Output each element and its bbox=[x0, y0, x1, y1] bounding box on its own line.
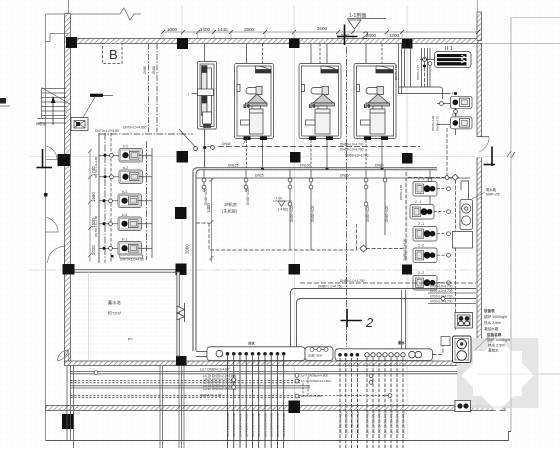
watermark leader diagonal bbox=[475, 337, 489, 351]
dimension ticks top bbox=[161, 30, 480, 34]
svg-text:0700×L0+4.700: 0700×L0+4.700 bbox=[430, 284, 453, 288]
pump P3 suction valve bbox=[99, 200, 118, 202]
valve drops from main bbox=[204, 170, 430, 250]
pump P3 bbox=[118, 194, 142, 208]
svg-text:b-1: b-1 bbox=[122, 238, 127, 242]
boiler feed pump row 4 bbox=[413, 248, 437, 263]
burner cylinder bbox=[366, 88, 379, 95]
dashed header to pumps right (y=177.5) bbox=[408, 177, 452, 179]
pump P5 bbox=[118, 242, 142, 256]
svg-text:约72m³: 约72m³ bbox=[108, 310, 122, 316]
svg-text:Ld-10 DN5d0.6+4.800: Ld-10 DN5d0.6+4.800 bbox=[301, 379, 331, 383]
svg-text:DN125: DN125 bbox=[228, 164, 239, 168]
condensate leader labels right mid bbox=[123, 125, 369, 157]
column R2C4 bbox=[402, 153, 413, 164]
pump P2 suction valve bbox=[99, 176, 119, 178]
door arc in bundle bbox=[58, 350, 69, 361]
valve on pipe A at x=443 bbox=[441, 297, 445, 301]
section marker 2 top bbox=[337, 25, 358, 46]
manifold2 tap circles bbox=[338, 353, 359, 357]
left wall band (x 64.5-70.5) bbox=[65, 14, 71, 364]
svg-text:DN70×1.0+4.80: DN70×1.0+4.80 bbox=[94, 156, 98, 178]
svg-text:2000: 2000 bbox=[185, 244, 190, 254]
column R4C3 bbox=[289, 264, 301, 275]
small dark unit bottom right bbox=[455, 401, 471, 412]
grid axis vertical C (x=294.5) bbox=[294, 34, 296, 440]
manifold right link to box bbox=[433, 341, 444, 355]
svg-text:Ld-7 DN5kpd+4.800: Ld-7 DN5kpd+4.800 bbox=[301, 374, 328, 378]
svg-text:热水 2.5t/h: 热水 2.5t/h bbox=[484, 320, 501, 325]
bottom-left solid pair 2 bbox=[71, 385, 311, 387]
svg-text:DN65×L0+4.700: DN65×L0+4.700 bbox=[345, 153, 369, 157]
staircase bbox=[37, 88, 70, 124]
grid axis horizontal row4 (y=270) bbox=[30, 269, 478, 271]
column R2C3 bbox=[290, 152, 301, 163]
right wall door swing arc bbox=[480, 137, 490, 152]
discharge riser (x=152) bbox=[151, 148, 153, 258]
boiler unit 1 bbox=[235, 64, 274, 141]
svg-text:DN50+4.00: DN50+4.00 bbox=[366, 206, 370, 222]
burner cylinder bbox=[311, 88, 324, 95]
svg-text:OB5-A Fb-4.80°: OB5-A Fb-4.80° bbox=[200, 393, 223, 397]
svg-text:LG-2 DN70×A+800: LG-2 DN70×A+800 bbox=[270, 413, 274, 437]
vertical dashed x=455.5 bbox=[455, 180, 457, 330]
svg-text:LG-2 DN70×A+800: LG-2 DN70×A+800 bbox=[396, 410, 400, 434]
level mark bbox=[273, 201, 292, 207]
grid axis horizontal row2 (y=156.5) bbox=[30, 156, 507, 158]
svg-text:DN25: DN25 bbox=[340, 174, 349, 178]
softener unit box1 bbox=[192, 62, 217, 130]
manifold tap dots bbox=[226, 352, 286, 356]
column R6C1 bbox=[62, 414, 74, 429]
bottom wall band 1 (y 361-365.5) bbox=[65, 361, 479, 366]
water tank twin circle unit bbox=[460, 200, 473, 230]
column R2C1 bbox=[58, 154, 71, 166]
svg-text:DN40+4.00: DN40+4.00 bbox=[385, 206, 389, 222]
svg-text:剩水箱: 剩水箱 bbox=[486, 187, 497, 192]
svg-text:锅炉 1000kg/h: 锅炉 1000kg/h bbox=[484, 314, 507, 319]
label rows bottom-left bbox=[200, 367, 237, 397]
boiler B2 top feed stubs bbox=[310, 44, 312, 64]
svg-text:DN80×1.0+4.750: DN80×1.0+4.750 bbox=[318, 284, 343, 288]
pump P1 bbox=[119, 149, 143, 163]
svg-text:L 3: L 3 bbox=[364, 104, 371, 109]
svg-text:Ld-8 DN70×A+800: Ld-8 DN70×A+800 bbox=[339, 411, 343, 435]
main pipe pair corner bbox=[193, 168, 437, 351]
small box above right of manifold bbox=[441, 337, 450, 346]
svg-text:2 -2: 2 -2 bbox=[418, 271, 424, 275]
grid ext line top right (y=17.5) bbox=[511, 17, 560, 19]
right wall band lower bbox=[477, 44, 482, 406]
bottom boundary line (y=440.5) bbox=[46, 432, 512, 441]
svg-text:Ld-6 DN70×A+800: Ld-6 DN70×A+800 bbox=[356, 411, 360, 435]
riser pair up from manifold bbox=[290, 338, 292, 347]
door arc bottom-left bbox=[58, 349, 69, 361]
svg-text:集水: 集水 bbox=[397, 340, 405, 345]
svg-text:DN80: DN80 bbox=[143, 66, 147, 74]
left pump vertical pipe a (x=99) bbox=[98, 133, 100, 263]
column R4C2 bbox=[176, 264, 187, 276]
svg-text:h-6: h-6 bbox=[452, 92, 457, 96]
dimension line top (y=32) bbox=[162, 31, 478, 33]
svg-text:DN80+4.80: DN80+4.80 bbox=[399, 184, 403, 200]
second cluster leader circles bbox=[295, 374, 299, 378]
svg-text:2 -1: 2 -1 bbox=[418, 222, 424, 226]
water tank room top wall bbox=[75, 270, 176, 273]
small unit below bbox=[455, 313, 473, 329]
faint room inner line bbox=[88, 272, 90, 361]
right wall door leaf bbox=[477, 136, 489, 138]
svg-text:LG-4 DN70×A+800: LG-4 DN70×A+800 bbox=[245, 413, 249, 437]
wall drop pipes to box1 (x=148.6,157) bbox=[148, 44, 150, 133]
outer boundary top-left (y=14) with break bbox=[46, 8, 142, 20]
vessel cone and body bbox=[313, 94, 334, 103]
stub from junction to main bbox=[204, 149, 206, 168]
bottom-left dashed pair bbox=[71, 380, 301, 382]
mid vertical pipes below band1 bbox=[160, 366, 184, 449]
gas dashed line (y=146.5) bbox=[218, 146, 420, 148]
svg-text:DfN4.6m+4.800: DfN4.6m+4.800 bbox=[301, 394, 322, 398]
manifold taps solid group bbox=[228, 356, 284, 448]
dark text block over watermark bbox=[487, 332, 510, 353]
leader circles bottom-left bbox=[369, 374, 373, 378]
tank top piping bbox=[461, 181, 469, 200]
svg-text:锅炉 1000kg/h: 锅炉 1000kg/h bbox=[487, 337, 510, 342]
right wall band upper (x 477-481.5) bbox=[477, 12, 482, 41]
svg-text:LG-3 DN70×A+800: LG-3 DN70×A+800 bbox=[257, 413, 261, 437]
equipment text block bbox=[484, 308, 507, 331]
column R1C2 bbox=[177, 38, 188, 49]
svg-text:2: 2 bbox=[365, 315, 374, 330]
section marker 2 bottom bbox=[341, 309, 363, 327]
boiler feed pump row 5 bbox=[413, 276, 437, 291]
svg-text:(-4.80): (-4.80) bbox=[278, 208, 288, 212]
junction trio below box1 bbox=[203, 146, 206, 149]
svg-text:水测7.5kW: 水测7.5kW bbox=[308, 353, 323, 358]
svg-text:2 -1: 2 -1 bbox=[415, 200, 421, 204]
dim chain left (x=90) bbox=[88, 149, 92, 262]
svg-text:2: 2 bbox=[361, 30, 368, 42]
condensate pump unit redrawn over watermark bbox=[453, 336, 472, 363]
dashed return (y=283) bbox=[300, 282, 476, 284]
svg-text:设备表: 设备表 bbox=[484, 308, 495, 313]
condensate pump unit bbox=[453, 336, 472, 363]
bottom-left pipe bundle solid pair 1 bbox=[71, 371, 477, 373]
dash-dot vertical x=346.5 lower bbox=[346, 47, 348, 347]
junction dot on left boundary bbox=[44, 193, 48, 197]
long pipe A (y=288.5) bbox=[291, 289, 477, 348]
svg-text:1400: 1400 bbox=[200, 27, 211, 32]
riser pair up from manifold2 bbox=[401, 290, 403, 349]
watermark inner faint line across bbox=[477, 373, 560, 375]
boiler feed pump row 2 bbox=[410, 205, 434, 220]
boiler feed pump row 1 bbox=[413, 182, 437, 197]
svg-text:2800: 2800 bbox=[244, 27, 255, 32]
HX valve 1 bbox=[423, 58, 427, 62]
svg-text:DN65+4.70: DN65+4.70 bbox=[436, 115, 440, 131]
svg-text:L 3: L 3 bbox=[309, 104, 316, 109]
plain box right bbox=[453, 232, 473, 249]
svg-text:DN70×1.0+4.80: DN70×1.0+4.80 bbox=[94, 215, 98, 237]
svg-text:Ld-10 DN70×2.0+4.800: Ld-10 DN70×2.0+4.800 bbox=[203, 387, 237, 391]
svg-text:DN65+4.00: DN65+4.00 bbox=[431, 115, 435, 131]
left pump vertical pipe c (x=111) dashed bbox=[110, 133, 112, 263]
pump P5 suction valve bbox=[99, 247, 118, 249]
svg-text:2600: 2600 bbox=[317, 26, 328, 31]
small dark mark above room bbox=[111, 255, 114, 258]
vertical line top right corner bbox=[477, 0, 479, 12]
mini valve chain right of manifold1 bbox=[310, 348, 328, 352]
svg-text:Ld-7 DN80×Cd-4.80°: Ld-7 DN80×Cd-4.80° bbox=[200, 367, 231, 371]
second leader label cluster bbox=[301, 374, 331, 399]
watermark gray square bbox=[457, 338, 539, 408]
louvre triangles on room right wall bbox=[177, 306, 185, 313]
svg-text:b-3: b-3 bbox=[122, 213, 127, 217]
svg-text:2 -2: 2 -2 bbox=[418, 244, 424, 248]
svg-text:b-2: b-2 bbox=[123, 145, 128, 149]
svg-text:LG-5 DN70×A+800: LG-5 DN70×A+800 bbox=[226, 413, 230, 437]
svg-text:DN70×L0+4.800: DN70×L0+4.800 bbox=[123, 125, 147, 129]
svg-text:0700×L0+4.700: 0700×L0+4.700 bbox=[430, 289, 453, 293]
watermark faint band2 line bbox=[457, 406, 511, 408]
svg-text:DN80×1.0+4.80: DN80×1.0+4.80 bbox=[403, 238, 407, 261]
door arc left wall mid bbox=[46, 218, 59, 233]
stem valves at label rows bbox=[232, 378, 236, 382]
box1 feed pipe bbox=[204, 44, 206, 62]
valves row B bbox=[202, 178, 206, 182]
column R5C3 bbox=[289, 401, 301, 414]
svg-text:凝结水箱: 凝结水箱 bbox=[484, 326, 499, 331]
pump P4 suction valve bbox=[99, 223, 118, 225]
dimension extension stubs top bbox=[163, 32, 402, 40]
svg-text:-7.00: -7.00 bbox=[274, 197, 282, 201]
svg-text:L 3: L 3 bbox=[244, 104, 251, 109]
top-left niche in wall bbox=[46, 34, 69, 42]
svg-text:LG-2 DN70×A+800: LG-2 DN70×A+800 bbox=[390, 410, 394, 434]
svg-text:II 1: II 1 bbox=[445, 46, 453, 52]
room interior hatch lines bbox=[72, 280, 176, 352]
manifold2 taps dashed group bbox=[340, 358, 403, 448]
grid axis vertical B (x=182) bbox=[181, 6, 183, 440]
top wall band (y 38.5-43.5) bbox=[65, 39, 479, 44]
svg-text:LG-5 DN70×A+800: LG-5 DN70×A+800 bbox=[372, 410, 376, 434]
boiler feed pump row 3 bbox=[413, 227, 437, 242]
boiler unit 2 bbox=[299, 64, 341, 141]
feed pipes into manifold left bbox=[196, 351, 207, 353]
svg-text:设备名称: 设备名称 bbox=[487, 332, 502, 337]
heat exchanger drop pipes bbox=[424, 62, 426, 88]
HX valve 2 bbox=[428, 62, 432, 66]
svg-text:P≈: P≈ bbox=[128, 337, 134, 342]
svg-text:LG-1 DN70×A+800: LG-1 DN70×A+800 bbox=[402, 410, 406, 434]
boiler B1 burner diagonal bbox=[243, 137, 249, 144]
svg-text:1#配电: 1#配电 bbox=[36, 121, 47, 126]
svg-text:热水 2.5t/h: 热水 2.5t/h bbox=[488, 343, 505, 348]
column R3C2 bbox=[175, 207, 187, 219]
margin legend mark bbox=[0, 98, 6, 104]
svg-text:2020: 2020 bbox=[91, 245, 96, 255]
burner cylinder bbox=[246, 88, 258, 95]
boiler B2 feet pipes bbox=[310, 140, 312, 168]
boiler B3 feet pipes bbox=[365, 140, 367, 168]
svg-text:LG-4 DN70×A+800: LG-4 DN70×A+800 bbox=[239, 413, 243, 437]
svg-text:凝结水: 凝结水 bbox=[488, 348, 499, 353]
rotated micro labels under taps group1 bbox=[226, 413, 286, 437]
leader from electric box bbox=[83, 97, 95, 118]
HW pump A bbox=[451, 96, 473, 108]
svg-text:1680: 1680 bbox=[91, 192, 96, 202]
section flag 1-1 top bbox=[347, 12, 386, 29]
pump P4 bbox=[118, 217, 142, 231]
door arc left wall upper bbox=[46, 146, 58, 160]
diagonal branch right bbox=[205, 146, 212, 148]
grid ext line right of top wall (y=43.5) bbox=[481, 43, 560, 45]
vessel cone and body bbox=[248, 94, 267, 103]
manifold header bbox=[207, 347, 433, 361]
left pump vertical pipe b (x=105) dash-dot bbox=[104, 133, 106, 263]
small dark unit bottom right redrawn bbox=[455, 401, 471, 412]
right boundary (x=511) bbox=[510, 18, 512, 432]
svg-text:DN65+4.50: DN65+4.50 bbox=[394, 64, 398, 80]
svg-text:DN80: DN80 bbox=[375, 164, 384, 168]
outer boundary left (x=45.5) bbox=[45, 14, 47, 441]
column R5C2 bbox=[176, 356, 187, 366]
column R4C4 bbox=[402, 265, 412, 275]
valves row C bbox=[288, 202, 292, 206]
left pump header (x=146.5) bbox=[146, 141, 148, 260]
svg-text:1440: 1440 bbox=[217, 27, 228, 32]
vessel cone and body bbox=[368, 94, 389, 103]
right top feed lines bbox=[399, 87, 456, 135]
pipe C right (y=293) bbox=[428, 292, 476, 294]
bottom wall band 2 (y 405-410.5) bbox=[46, 406, 506, 411]
bottom-left dashed pair 2 bbox=[71, 395, 391, 397]
vertical line above top wall x=294 bbox=[293, 6, 295, 38]
section marker 1 left bbox=[37, 149, 53, 168]
svg-text:Ld-8 DN70×A+800: Ld-8 DN70×A+800 bbox=[344, 411, 348, 435]
column R2C2 bbox=[177, 151, 189, 163]
right wall door opening white gap bbox=[476, 137, 483, 157]
svg-text:LG-2 DN70×A+800: LG-2 DN70×A+800 bbox=[264, 413, 268, 437]
secondary line (y=178) with valves bbox=[196, 177, 470, 179]
pipe D right (y=303.5) bbox=[428, 303, 476, 305]
svg-text:LG-3 DN70×A+800: LG-3 DN70×A+800 bbox=[251, 413, 255, 437]
svg-text:1200: 1200 bbox=[389, 33, 400, 38]
svg-text:2 -1: 2 -1 bbox=[418, 177, 424, 181]
boiler unit 3 bbox=[354, 64, 396, 141]
dash riser to HW circle bbox=[446, 128, 448, 176]
heat exchanger II1 bbox=[435, 46, 472, 68]
svg-text:DN50: DN50 bbox=[152, 66, 156, 74]
svg-text:LG-1 DN70×A+800: LG-1 DN70×A+800 bbox=[282, 413, 286, 437]
boiler B1 feet pipes bbox=[246, 140, 248, 168]
suction header horizontal (y=134) bbox=[99, 133, 193, 135]
diagonal branch left bbox=[179, 129, 195, 147]
svg-text:DN65×L0+4.700: DN65×L0+4.700 bbox=[340, 147, 364, 151]
svg-text:I: I bbox=[188, 92, 189, 97]
water tank room right wall bbox=[177, 272, 180, 356]
HX junction dot bbox=[423, 65, 426, 68]
svg-text:DN25: DN25 bbox=[255, 174, 264, 178]
right boundary through watermark bbox=[510, 330, 512, 431]
loop diamond bbox=[360, 245, 367, 252]
leader dash drops bbox=[302, 383, 304, 397]
HW pump B bbox=[451, 117, 473, 129]
svg-text:DN50+4.00: DN50+4.00 bbox=[311, 206, 315, 222]
svg-text:(主机房): (主机房) bbox=[222, 208, 238, 215]
svg-text:DN50+4.00: DN50+4.00 bbox=[204, 189, 208, 205]
pump P1 suction valve bbox=[99, 154, 119, 156]
svg-text:DN50+4.70: DN50+4.70 bbox=[416, 64, 420, 80]
svg-text:Ld-6 DN70×A+800: Ld-6 DN70×A+800 bbox=[350, 411, 354, 435]
riser bundle right of boilers bbox=[399, 44, 431, 94]
left vertical pipes below band1 bbox=[67, 366, 74, 449]
watermark white star square bbox=[473, 351, 522, 396]
svg-text:DN80×1.0+4.700: DN80×1.0+4.700 bbox=[340, 279, 365, 283]
column R1C4 bbox=[402, 39, 413, 49]
svg-text:1-1剖面: 1-1剖面 bbox=[349, 12, 366, 19]
svg-text:DN50+4.00: DN50+4.00 bbox=[246, 189, 250, 205]
thin table above room bbox=[120, 255, 143, 258]
long pipe B (y=298.5) bbox=[297, 299, 477, 348]
rotated micro labels under taps group2 bbox=[339, 410, 406, 434]
svg-text:1#机房: 1#机房 bbox=[224, 201, 237, 208]
svg-text:DN50+4.00: DN50+4.00 bbox=[290, 206, 294, 222]
electric box bottom of stair bbox=[71, 118, 88, 131]
section marker 1 right bbox=[484, 147, 496, 167]
grid axis vertical D (x=407) bbox=[406, 6, 408, 440]
dashed vertical right of boilers x=406 bbox=[405, 172, 407, 260]
svg-text:LG-3 DN70×A+800: LG-3 DN70×A+800 bbox=[384, 410, 388, 434]
svg-text:分水: 分水 bbox=[248, 341, 255, 346]
svg-text:b-3: b-3 bbox=[122, 190, 127, 194]
svg-text:DN100: DN100 bbox=[300, 164, 311, 168]
heat exchanger inlet valves bbox=[420, 59, 435, 61]
column R1C3 bbox=[289, 39, 300, 49]
svg-text:LG-5 DN70×A+800: LG-5 DN70×A+800 bbox=[232, 413, 236, 437]
column R1C1 bbox=[66, 37, 77, 48]
watermark white star diamond bbox=[462, 337, 534, 413]
door arc left wall lower (into room) bbox=[48, 247, 65, 264]
break mark on right boundary bbox=[507, 151, 515, 158]
valve between HW pumps bbox=[454, 110, 458, 114]
boiler B3 top feed stubs bbox=[365, 44, 367, 64]
valve at HW pump inlet bbox=[440, 102, 444, 106]
svg-text:b-2: b-2 bbox=[123, 166, 128, 170]
svg-text:LG-5 DN70×A+800: LG-5 DN70×A+800 bbox=[366, 410, 370, 434]
junction dot HW header bbox=[454, 92, 457, 95]
svg-text:1000: 1000 bbox=[167, 27, 178, 32]
svg-text:NMP≈2/5: NMP≈2/5 bbox=[486, 193, 500, 197]
svg-text:蓄水池: 蓄水池 bbox=[108, 299, 121, 306]
svg-text:LG-3 DN70×A+800: LG-3 DN70×A+800 bbox=[378, 410, 382, 434]
box1 outlet pipe bbox=[204, 129, 206, 147]
column R4C1 bbox=[63, 264, 75, 275]
pipe labels bottom right bbox=[318, 279, 453, 304]
svg-text:DN40: DN40 bbox=[222, 142, 231, 146]
dashed loop bbox=[196, 223, 357, 250]
svg-text:DN70×1.0+4.80: DN70×1.0+4.80 bbox=[95, 129, 119, 133]
svg-text:DN65×L0+4.700: DN65×L0+4.700 bbox=[340, 142, 364, 146]
pump discharge stubs bbox=[142, 155, 153, 248]
boiler B1 top feed stubs bbox=[246, 44, 248, 64]
svg-text:B: B bbox=[109, 47, 118, 62]
dim chain mid (x=211.5) bbox=[210, 178, 214, 262]
grid axis vertical A (x=71) bbox=[68, 0, 70, 38]
stair arrow bbox=[52, 100, 54, 125]
B label box bbox=[103, 44, 123, 64]
pump P2 bbox=[119, 170, 143, 184]
